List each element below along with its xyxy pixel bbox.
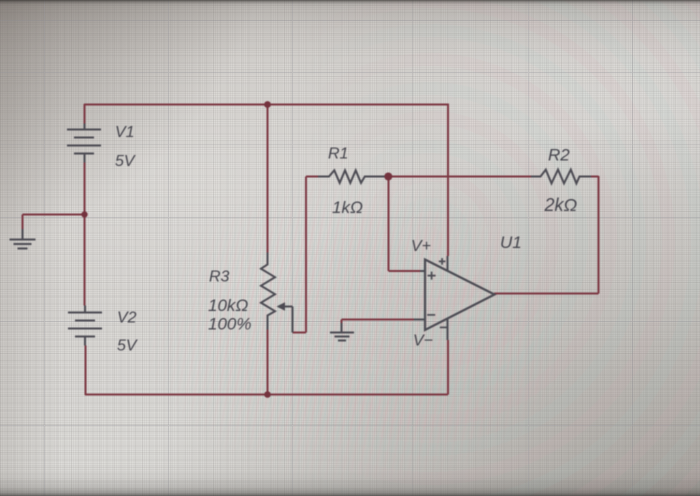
- node: ground junction: [81, 211, 87, 217]
- wire: V- power rise: [447, 340, 449, 395]
- resistor R1: [318, 170, 385, 183]
- potentiometer R3 wiper: [284, 307, 293, 333]
- node: bottom rail / R3: [264, 391, 271, 398]
- op-amp pin marker: non-inverting input +: [428, 272, 436, 280]
- op-amp U1 triangle: [425, 260, 495, 331]
- wire: R3 bottom branch: [267, 330, 269, 395]
- op-amp non-inverting input stub: [420, 270, 426, 272]
- wire: R1 to R2: [374, 176, 531, 178]
- op-amp pin marker: inverting input -: [427, 314, 435, 316]
- wire: left rail V1 to V2 through ground junction: [84, 163, 86, 306]
- op-amp pin marker: V+ power pin +: [439, 258, 446, 265]
- wire: ground 1 branch: [23, 215, 85, 230]
- resistor R2: [531, 170, 591, 184]
- wire: top rail V1 to op-amp V+: [23, 104, 599, 396]
- wire: feedback to non-inverting input: [389, 177, 421, 271]
- wire: left rail top (V1 top lead): [84, 104, 86, 124]
- wire: bottom rail V2 to op-amp V-: [85, 394, 448, 396]
- wire: R2 right to output: [494, 176, 599, 294]
- wire: inverting input to ground 2: [342, 320, 415, 324]
- wire: V+ power drop: [447, 104, 449, 257]
- wire: R3 top branch: [267, 104, 269, 253]
- wire: R1 left lead to R3 wiper: [293, 177, 319, 333]
- op-amp pin markers: [427, 258, 447, 327]
- battery V1: [67, 124, 101, 163]
- battery V2: [68, 306, 102, 346]
- potentiometer R3 body: [261, 253, 275, 330]
- op-amp inverting input stub: [414, 319, 426, 321]
- ground G1: [10, 229, 36, 249]
- junction node dots: [81, 101, 392, 398]
- wire: V2 bottom to bottom rail: [85, 346, 87, 396]
- op-amp pin marker: V- power pin -: [440, 326, 447, 328]
- potentiometer R3 wiper arrowhead: [277, 302, 286, 310]
- node: R1/R2/input junction: [384, 173, 392, 181]
- op-amp power pin stubs: [447, 256, 449, 340]
- node: top rail / R3: [264, 101, 271, 108]
- ground G2: [330, 323, 354, 341]
